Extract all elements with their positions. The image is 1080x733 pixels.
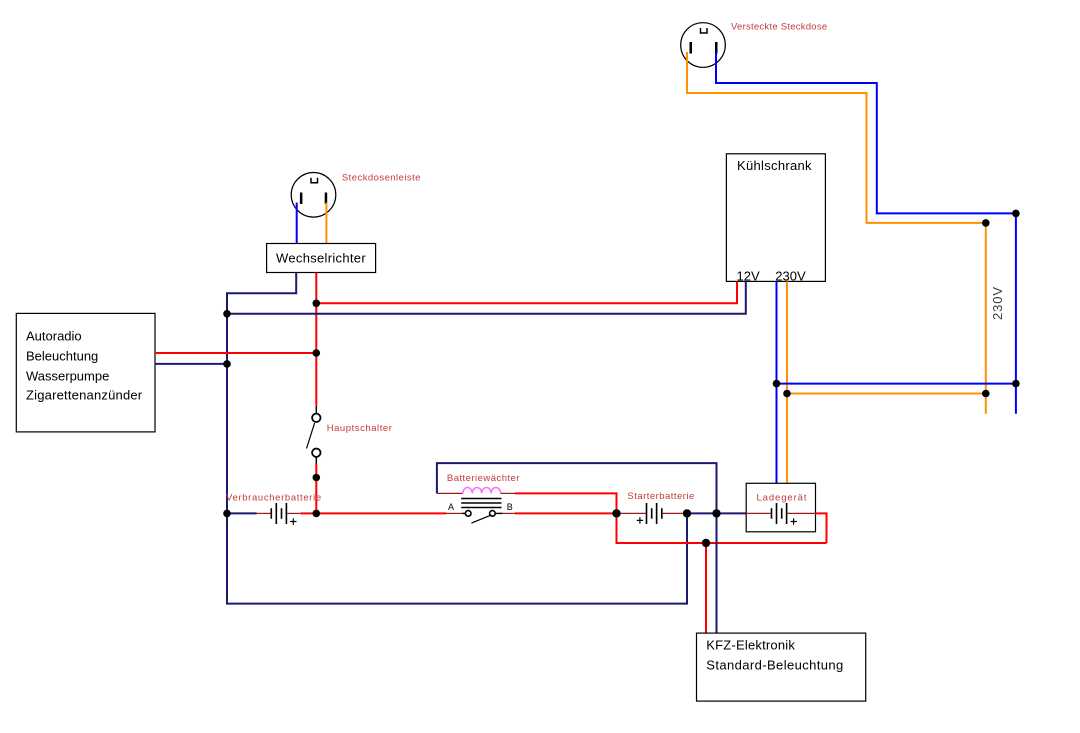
svg-text:12V: 12V xyxy=(737,269,760,284)
svg-text:Starterbatterie: Starterbatterie xyxy=(627,491,694,502)
wire red switch to battery rail xyxy=(315,464,317,514)
svg-text:Wasserpumpe: Wasserpumpe xyxy=(26,368,109,383)
wire navy vertical rail to KFZ xyxy=(716,463,718,633)
wire blue horizontal to right rail xyxy=(777,383,1016,385)
wire red coil output xyxy=(515,493,617,513)
wire blue right rail xyxy=(1015,213,1017,413)
svg-text:Hauptschalter: Hauptschalter xyxy=(327,423,393,434)
svg-text:Kühlschrank: Kühlschrank xyxy=(737,158,812,173)
wire orange from J1 xyxy=(687,52,986,223)
svg-text:230V: 230V xyxy=(775,269,806,284)
wire navy Batteriewaechter top xyxy=(437,463,717,513)
wire red Wechselrichter plus vertical xyxy=(315,273,317,406)
wire orange J2 to Wechselrichter xyxy=(325,203,327,244)
node navy Autoradio branch xyxy=(223,360,231,368)
node starter battery right xyxy=(683,509,691,517)
wire navy horizontal to Kuehlschrank 12V xyxy=(227,281,746,313)
node orange top right xyxy=(982,219,990,227)
svg-text:KFZ-Elektronik: KFZ-Elektronik xyxy=(706,637,795,652)
node navy rail at battery line xyxy=(712,509,720,517)
node red below switch xyxy=(313,474,321,482)
Autoradio load box U1 xyxy=(16,313,155,432)
svg-text:Batteriewächter: Batteriewächter xyxy=(447,473,520,484)
wire blue from J1 xyxy=(716,52,1016,213)
node orange Kuehlschrank branch xyxy=(783,390,791,398)
wire red junction down to bottom rail xyxy=(617,513,827,543)
wire red Ladegeraet output xyxy=(816,513,827,543)
switch S1 Hauptschalter xyxy=(307,406,321,464)
socket J1 Versteckte Steckdose xyxy=(681,23,726,68)
wire orange Kuehlschrank 230V down xyxy=(786,281,788,483)
coil lead left xyxy=(437,492,463,494)
contact blade xyxy=(471,515,491,523)
socket J2 Steckdosenleiste xyxy=(291,173,336,218)
coil lead right xyxy=(501,492,515,494)
Kuehlschrank box U3 xyxy=(726,154,825,282)
contact circle A xyxy=(465,511,471,517)
battery B1 Verbraucherbatterie xyxy=(227,503,316,525)
wire navy Wechselrichter minus xyxy=(227,273,687,604)
svg-text:Beleuchtung: Beleuchtung xyxy=(26,348,98,363)
wire red to KFZ box xyxy=(705,543,707,633)
node red bottom rail xyxy=(702,539,710,547)
svg-text:Verbraucherbatterie: Verbraucherbatterie xyxy=(226,493,322,504)
node red contact B junction xyxy=(612,509,620,517)
svg-text:A: A xyxy=(448,502,454,512)
wire orange horizontal to right rail xyxy=(787,393,986,395)
node blue bottom right xyxy=(1012,380,1020,388)
relay K1 Batteriewaechter xyxy=(437,463,717,523)
battery B3 Ladegeraet xyxy=(746,503,815,525)
battery B2 Starterbatterie xyxy=(617,503,688,524)
coil K1 xyxy=(463,487,501,493)
node blue Kuehlschrank branch xyxy=(773,380,781,388)
svg-text:Autoradio: Autoradio xyxy=(26,328,82,343)
svg-text:Standard-Beleuchtung: Standard-Beleuchtung xyxy=(706,657,843,672)
node orange bottom right xyxy=(982,390,990,398)
svg-text:230V: 230V xyxy=(990,286,1005,320)
Wechselrichter box U2 xyxy=(267,244,376,273)
wire red contact B to junction xyxy=(515,512,617,514)
wire navy Autoradio to main xyxy=(155,363,227,365)
contact lead A xyxy=(446,512,461,514)
svg-text:Steckdosenleiste: Steckdosenleiste xyxy=(342,172,421,183)
node navy battery left xyxy=(223,510,231,518)
Ladegeraet box U4 xyxy=(746,483,815,532)
node red battery right xyxy=(313,510,321,518)
wire blue J2 to Wechselrichter xyxy=(296,203,298,244)
node red Autoradio branch xyxy=(313,349,321,357)
contact circle B xyxy=(490,511,496,517)
wire red Autoradio to main xyxy=(155,352,316,354)
wire blue Kuehlschrank 230V down xyxy=(776,281,778,483)
relay core lines xyxy=(461,498,501,500)
svg-text:B: B xyxy=(507,502,513,512)
svg-text:Wechselrichter: Wechselrichter xyxy=(276,251,366,266)
wire red horizontal to Kuehlschrank 12V xyxy=(316,281,737,303)
wire orange right rail xyxy=(985,223,987,414)
svg-text:Zigarettenanzünder: Zigarettenanzünder xyxy=(26,388,143,403)
node blue top right xyxy=(1012,210,1020,218)
contact lead B xyxy=(495,512,503,514)
node navy Wechselrichter branch xyxy=(223,310,231,318)
wire navy starter junction to Ladegeraet xyxy=(687,512,746,514)
wire red battery rail to contact A xyxy=(316,512,446,514)
svg-text:Ladegerät: Ladegerät xyxy=(757,492,808,503)
KFZ-Elektronik box U5 xyxy=(697,633,866,701)
svg-text:Versteckte Steckdose: Versteckte Steckdose xyxy=(731,22,827,33)
node red Wechselrichter branch xyxy=(313,300,321,308)
